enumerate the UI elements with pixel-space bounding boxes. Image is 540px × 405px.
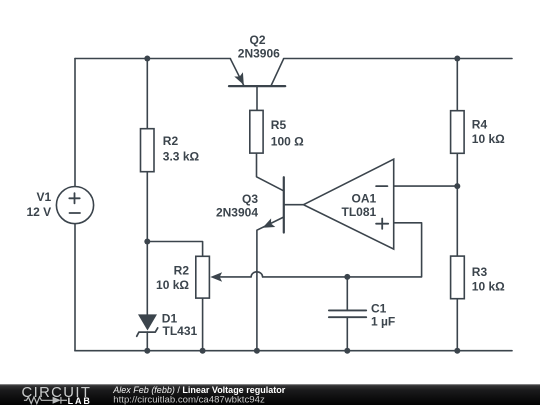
svg-text:12 V: 12 V (27, 205, 52, 219)
svg-text:R2: R2 (163, 134, 179, 148)
svg-text:100 Ω: 100 Ω (271, 135, 304, 149)
svg-text:10 kΩ: 10 kΩ (472, 132, 505, 146)
svg-text:3.3 kΩ: 3.3 kΩ (163, 150, 200, 164)
svg-text:R5: R5 (271, 118, 287, 132)
svg-text:LAB: LAB (68, 396, 92, 405)
svg-text:http://circuitlab.com/ca487wbk: http://circuitlab.com/ca487wbktc94z (113, 395, 265, 405)
svg-text:2N3904: 2N3904 (216, 206, 258, 220)
svg-text:10 kΩ: 10 kΩ (156, 278, 189, 292)
svg-text:Alex Feb (febb) / Linear Volta: Alex Feb (febb) / Linear Voltage regulat… (112, 385, 285, 395)
svg-text:2N3906: 2N3906 (238, 47, 280, 61)
svg-text:Q2: Q2 (249, 33, 265, 47)
svg-text:TL081: TL081 (342, 205, 377, 219)
svg-text:OA1: OA1 (352, 192, 377, 206)
svg-text:10 kΩ: 10 kΩ (472, 279, 505, 293)
svg-text:V1: V1 (37, 190, 52, 204)
svg-text:R2: R2 (174, 264, 190, 278)
svg-text:Q3: Q3 (242, 192, 258, 206)
svg-text:R4: R4 (472, 118, 488, 132)
svg-text:R3: R3 (472, 265, 488, 279)
svg-text:1 µF: 1 µF (371, 314, 395, 328)
svg-text:TL431: TL431 (163, 324, 198, 338)
